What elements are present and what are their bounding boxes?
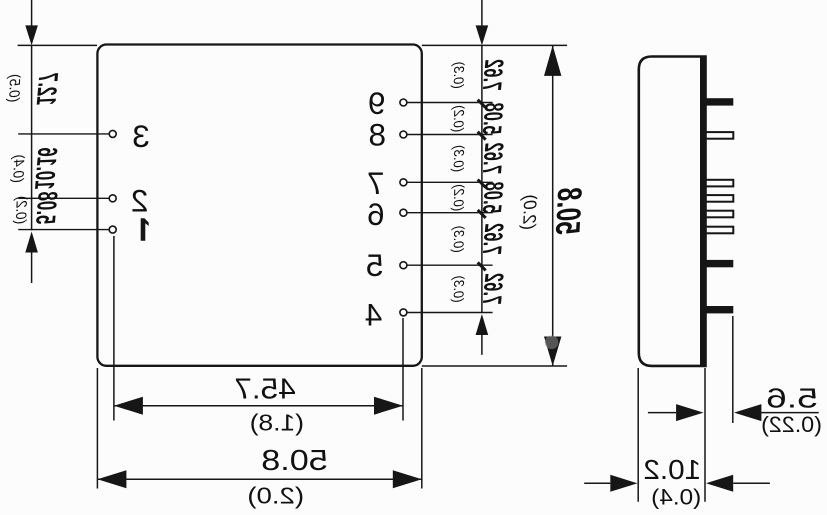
45.7 extension line right — [113, 236, 115, 421]
svg-text:(0.3): (0.3) — [450, 61, 467, 90]
10.2 dimension — [706, 475, 733, 492]
svg-text:(2.0): (2.0) — [247, 483, 304, 508]
svg-text:10.2: 10.2 — [643, 455, 701, 486]
pin 3 — [109, 130, 116, 137]
svg-text:(0.3): (0.3) — [450, 144, 467, 173]
side pin bar row3 hollow — [706, 180, 734, 187]
pin 2 — [109, 195, 116, 202]
pin 8 — [400, 131, 407, 138]
50.8 extension line left — [421, 368, 423, 489]
chain tick pin5 — [478, 262, 486, 270]
svg-text:5.08: 5.08 — [477, 181, 510, 214]
pin 7 extension line — [407, 181, 493, 183]
side pin bar row5 hollow — [706, 211, 734, 218]
chain tick pin9 — [478, 100, 486, 108]
chain tick pin8 — [478, 132, 486, 140]
svg-text:50.8: 50.8 — [261, 443, 328, 476]
svg-text:7.62: 7.62 — [477, 272, 510, 305]
side pin bar row6 hollow — [706, 227, 734, 234]
side view pin face band — [700, 57, 706, 366]
svg-text:5.6: 5.6 — [766, 382, 818, 413]
bottom edge extension line left — [422, 365, 567, 367]
45.7 dimension line — [114, 405, 403, 407]
pin 2 extension line — [18, 197, 109, 199]
pin 9 extension line — [407, 102, 493, 104]
side pin bar row1 solid — [706, 98, 734, 105]
svg-text:(0.4): (0.4) — [9, 154, 27, 184]
side ext line face — [704, 368, 706, 502]
svg-text:12.7: 12.7 — [31, 72, 64, 106]
side ext line pin tip — [732, 316, 734, 423]
pin 7 — [400, 179, 407, 186]
svg-text:(0.2): (0.2) — [12, 195, 30, 225]
side pin bar row4 hollow — [706, 195, 734, 202]
svg-text:45.7: 45.7 — [234, 374, 296, 406]
pin 3 extension line — [18, 133, 109, 135]
svg-text:2: 2 — [131, 182, 149, 218]
pin 4 — [400, 309, 407, 316]
svg-text:7.62: 7.62 — [477, 222, 510, 255]
package body front view — [97, 45, 421, 366]
50.8 extension line right — [96, 368, 98, 489]
45.7 extension line left — [402, 318, 404, 421]
svg-text:(0.22): (0.22) — [761, 412, 822, 437]
svg-text:6: 6 — [367, 196, 385, 232]
side pin bar row8 solid — [706, 306, 734, 313]
svg-text:(0.2): (0.2) — [450, 104, 467, 133]
side ext line outer — [637, 368, 639, 502]
svg-text:(0.4): (0.4) — [651, 484, 701, 509]
top edge extension line right — [18, 44, 97, 46]
svg-text:(0.3): (0.3) — [450, 275, 467, 304]
pin 6 — [400, 209, 407, 216]
pin 4 extension line — [407, 312, 493, 314]
svg-text:5.08: 5.08 — [477, 102, 510, 135]
svg-text:3: 3 — [132, 118, 150, 154]
50.8 dimension line — [97, 478, 421, 480]
pin 5 extension line — [407, 264, 493, 266]
vertical dimension 50.8 line — [552, 45, 554, 366]
svg-text:8: 8 — [368, 117, 386, 153]
pin 1 label — [141, 218, 149, 241]
pin 8 extension line — [407, 134, 493, 136]
chain tick pin7 — [478, 180, 486, 188]
5.6 dimension — [676, 404, 703, 421]
svg-text:7.62: 7.62 — [477, 58, 510, 91]
svg-text:(1.8): (1.8) — [250, 411, 304, 436]
pin 9 — [400, 99, 407, 106]
pin 6 extension line — [407, 212, 493, 214]
pin 5 — [400, 262, 407, 269]
svg-text:(0.5): (0.5) — [5, 73, 23, 103]
svg-text:5: 5 — [366, 247, 384, 283]
svg-text:50.8: 50.8 — [548, 186, 588, 236]
pin 1 extension line — [18, 229, 109, 231]
top edge extension line left — [422, 44, 567, 46]
svg-text:(0.2): (0.2) — [450, 183, 467, 212]
side view body — [639, 57, 706, 366]
svg-text:7.62: 7.62 — [477, 142, 510, 175]
svg-text:5.08: 5.08 — [30, 191, 64, 225]
side pin bar row7 solid — [706, 260, 734, 267]
right chain dimension line (12.7/10.16/5.08) — [31, 0, 33, 26]
left chain dimension line (7.62/5.08 chain) — [481, 0, 483, 26]
side pin bar row2 hollow — [706, 132, 734, 139]
svg-text:10.16: 10.16 — [29, 147, 64, 191]
chain tick pin6 — [478, 210, 486, 218]
svg-text:4: 4 — [365, 296, 383, 332]
pin 1 — [109, 226, 116, 233]
svg-text:(2.0): (2.0) — [519, 193, 541, 230]
watermark blob — [545, 336, 559, 350]
svg-text:(0.3): (0.3) — [450, 225, 467, 254]
